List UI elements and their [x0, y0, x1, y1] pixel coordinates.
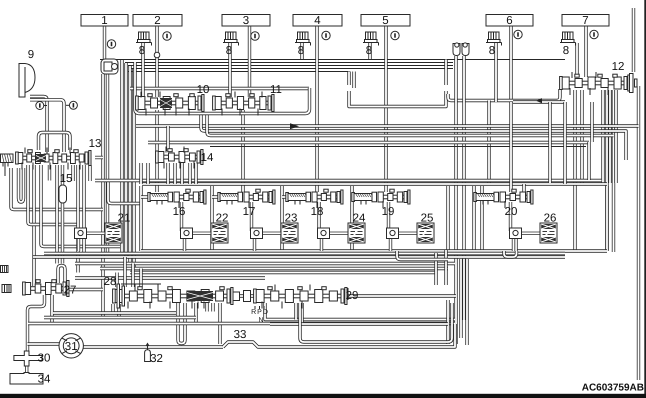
wire cell drop jog	[397, 251, 448, 260]
svg-text:3: 3	[243, 15, 249, 27]
svg-text:25: 25	[421, 213, 434, 225]
component 9	[19, 64, 35, 98]
accumulator 23	[251, 223, 299, 251]
wire bus y319	[265, 303, 455, 320]
orifice circle box2	[163, 32, 171, 40]
wire drop to 29 b	[444, 250, 447, 285]
svg-text:6: 6	[506, 15, 512, 27]
wire ball2 up	[444, 60, 447, 86]
solenoid valve 17	[218, 192, 243, 204]
svg-text:30: 30	[38, 353, 51, 365]
wire box2 drop	[155, 26, 158, 97]
wire valve14 feed	[166, 126, 169, 151]
svg-text:18: 18	[311, 206, 324, 218]
wire cup drop 2	[462, 56, 465, 320]
wire 29 tick	[347, 288, 349, 300]
svg-text:7: 7	[582, 15, 588, 27]
valve 14	[156, 147, 203, 169]
wire 28 left drop a	[111, 304, 114, 313]
wire box7 drop	[584, 26, 587, 77]
svg-text:4: 4	[314, 15, 321, 27]
wire valve housing 10-11	[135, 62, 310, 114]
svg-text:23: 23	[285, 213, 298, 225]
svg-text:8: 8	[489, 45, 495, 57]
wire bus y313	[53, 311, 176, 314]
svg-text:10: 10	[197, 84, 210, 96]
wire stub below 13 spring	[4, 163, 6, 176]
wire v13 to 15	[61, 165, 64, 185]
wire bus y278	[75, 276, 265, 279]
wire v41-L	[41, 165, 120, 247]
wire v565	[563, 102, 566, 184]
wire bus y184	[142, 182, 607, 185]
wire pump out left	[84, 345, 224, 348]
svg-text:N: N	[258, 317, 263, 324]
wire cell bottom bus	[141, 249, 607, 252]
svg-text:24: 24	[353, 213, 366, 225]
wire box3 drop	[248, 26, 251, 97]
wire stub circ1	[44, 105, 47, 107]
wire vr461	[459, 259, 462, 338]
wire jog under cell6	[504, 251, 517, 257]
wire pump in	[28, 342, 60, 345]
wire 29 left drop b	[300, 303, 303, 324]
svg-text:AC603759AB: AC603759AB	[582, 383, 644, 394]
svg-text:16: 16	[173, 206, 186, 218]
wire sol2 drop	[141, 43, 144, 97]
accumulator 21	[75, 223, 123, 251]
wire 17 left stub	[212, 195, 218, 198]
wire box1 drop lower	[106, 74, 109, 253]
accumulator 26	[510, 223, 558, 251]
box 7 (connector7)	[562, 15, 609, 28]
svg-text:34: 34	[38, 374, 51, 386]
wire v550	[548, 102, 551, 183]
wire sol3 drop	[228, 43, 231, 97]
accumulator 25	[387, 223, 435, 251]
wire 27 drop 2	[50, 295, 53, 324]
solenoid 8 under box 7	[560, 32, 576, 57]
svg-text:8: 8	[366, 45, 372, 57]
wire v28-L	[28, 165, 78, 225]
wire drop x134	[132, 69, 135, 269]
wire cup drop 1	[454, 56, 457, 344]
wire bus line y146	[210, 146, 586, 148]
wire descender x489	[487, 101, 490, 184]
svg-text:27: 27	[64, 285, 77, 297]
wire bus y180	[95, 179, 602, 182]
svg-text:1: 1	[101, 15, 107, 27]
svg-text:8: 8	[226, 45, 232, 57]
wire valve 20 to accumulator drop	[509, 202, 512, 231]
wire 16 left stub	[141, 195, 148, 198]
valve 12	[560, 72, 630, 95]
wire loop under 29	[300, 303, 452, 342]
wire strainer run	[223, 324, 455, 347]
wire drop x130	[128, 66, 131, 264]
solenoid 8 under box 4	[295, 32, 311, 57]
accumulator 22	[181, 223, 229, 251]
solenoid 8 under box 5	[363, 32, 379, 57]
flow arrow 2	[290, 123, 299, 129]
wire 28 rod	[121, 283, 161, 285]
wire bus y324b	[270, 322, 448, 325]
box 2 (connector2)	[133, 15, 182, 28]
wire bus y135	[207, 114, 614, 136]
wire vr467	[465, 259, 468, 345]
wire drop 28b	[218, 303, 221, 344]
wire loop under 28	[178, 303, 185, 344]
wire drops to valve 28	[117, 257, 141, 287]
wire stub 28d	[211, 303, 214, 312]
wire valve 19 to accumulator drop	[387, 202, 390, 231]
box 1 (connector1)	[81, 15, 128, 28]
wire bus y268	[100, 267, 448, 270]
check valve under box 1	[101, 59, 118, 74]
wire bus y253	[44, 252, 565, 255]
wire v589	[587, 142, 590, 180]
wire pipe from 9 left	[30, 97, 47, 153]
wire top bus band	[100, 60, 565, 72]
svg-text:32: 32	[150, 353, 163, 365]
bottom frame bar	[0, 394, 646, 398]
valve 13	[16, 148, 91, 170]
wire sol4 drop	[300, 43, 303, 59]
svg-text:5: 5	[382, 15, 388, 27]
wire v57	[55, 165, 58, 264]
accumulator 24	[318, 223, 366, 251]
solenoid 8 under box 3	[223, 32, 239, 57]
check circle left B	[69, 101, 77, 109]
wire pipe from 9 right	[30, 100, 64, 152]
wire 13 right stub	[95, 156, 103, 159]
wire v592	[590, 102, 593, 142]
wire stub 28c	[205, 303, 208, 312]
box 3 (connector3)	[222, 15, 270, 28]
wire valve20 feed from box6	[509, 102, 512, 192]
wire v34 to 27	[32, 165, 35, 286]
wire y102 right link	[513, 100, 565, 103]
relief bottle 32	[145, 344, 151, 362]
solenoid 8 under box 2	[136, 32, 152, 57]
wire drop x126	[124, 63, 127, 257]
svg-text:22: 22	[216, 213, 229, 225]
wire 26 drop	[514, 237, 517, 251]
wire stub circ2	[66, 104, 70, 106]
wire drop x354	[352, 72, 355, 89]
wire right upper vertical	[632, 8, 635, 72]
coupling between 28 and 29	[233, 291, 251, 302]
wire v49 below 13	[48, 165, 51, 181]
wire valve14 drops	[141, 163, 196, 184]
svg-text:14: 14	[201, 152, 214, 164]
wire drop 28a	[194, 303, 197, 324]
svg-text:29: 29	[346, 290, 359, 302]
wire 27-28 link	[69, 288, 103, 291]
wire valve12 drops	[575, 90, 616, 252]
valve 11	[213, 92, 274, 116]
wire bus y263	[75, 262, 455, 265]
wire box2 drop to valve16	[155, 110, 158, 192]
valve 29	[254, 285, 347, 309]
wire 29 right drop	[446, 300, 449, 344]
wire sol7 drop	[575, 43, 578, 77]
orifice circle box1	[107, 40, 115, 48]
right edge frame line	[644, 0, 646, 398]
orifice circle box6	[514, 30, 522, 38]
wire link to cell1	[108, 181, 141, 204]
wire box5 drop	[384, 26, 387, 192]
solenoid valve 18	[286, 192, 311, 204]
wire box6 drop	[509, 26, 512, 102]
wire sol6 drop	[494, 43, 497, 102]
solenoid valve 20	[474, 192, 499, 204]
wire box4 drop	[315, 26, 318, 192]
left edge connector stub	[1, 266, 9, 273]
wire 30 to 34	[25, 365, 28, 373]
wire ball link	[349, 91, 446, 107]
wire v11-L	[11, 168, 103, 210]
wire valve 18 to accumulator drop	[317, 202, 320, 231]
pump 31	[59, 334, 83, 358]
wire 29 right link	[344, 294, 456, 297]
flow arrow	[536, 98, 542, 103]
svg-text:19: 19	[382, 206, 395, 218]
wire v78	[76, 165, 79, 273]
check circle left A	[36, 102, 44, 110]
wire box1 drop left	[101, 74, 104, 318]
junction node under box 2	[154, 52, 160, 58]
accumulator 15	[59, 185, 67, 203]
svg-text:9: 9	[28, 49, 34, 61]
twin accumulator cups	[453, 43, 469, 56]
orifice circle box5	[391, 31, 399, 39]
wire bus y131	[201, 114, 626, 161]
wire bus y323	[28, 322, 455, 325]
wire sol5 drop	[368, 43, 371, 59]
fitting 30	[14, 351, 42, 366]
wire drop to 29 a	[434, 253, 437, 285]
box 5 (connector5)	[361, 15, 410, 28]
svg-text:12: 12	[612, 61, 625, 73]
wire loop under 13	[19, 168, 24, 202]
svg-text:RPD: RPD	[251, 309, 269, 316]
wire v90	[88, 165, 91, 181]
box 6 (connector6)	[486, 15, 533, 28]
svg-text:21: 21	[118, 213, 131, 225]
svg-text:15: 15	[60, 173, 73, 185]
wire bus y88	[130, 87, 309, 90]
svg-text:28: 28	[104, 276, 117, 288]
wire v84	[82, 165, 85, 253]
wire valve12 left feed	[448, 89, 560, 101]
orifice circle box4	[322, 31, 330, 39]
solenoid valve 16	[148, 192, 173, 204]
solenoid valve 19	[352, 192, 377, 204]
valve 10	[136, 92, 204, 116]
svg-text:13: 13	[89, 138, 102, 150]
wire 27 top loop	[58, 266, 65, 284]
orifice circle box7	[590, 30, 598, 38]
svg-text:31: 31	[65, 341, 78, 353]
valve 28 (manual valve)	[113, 285, 233, 309]
svg-text:33: 33	[234, 329, 247, 341]
svg-text:8: 8	[563, 45, 569, 57]
svg-text:8: 8	[298, 45, 304, 57]
svg-text:17: 17	[243, 206, 256, 218]
svg-text:20: 20	[505, 206, 518, 218]
wire v20 feed	[522, 184, 525, 192]
svg-text:2: 2	[154, 15, 160, 27]
svg-text:11: 11	[270, 84, 282, 96]
wire housing above 13	[39, 133, 71, 151]
wire valve 16 to accumulator drop	[180, 202, 183, 231]
wire right border vertical	[637, 86, 640, 380]
wire cell dividers	[141, 186, 607, 251]
box 4 (connector4)	[293, 15, 342, 28]
svg-text:8: 8	[139, 45, 145, 57]
wire 28-29 link	[230, 294, 256, 297]
wire bus y142	[148, 141, 589, 144]
wire 29 left drop a	[294, 303, 297, 320]
wire 27 to 30	[28, 295, 45, 351]
wire valve 17 to accumulator drop	[250, 202, 253, 231]
valve 27	[23, 280, 69, 297]
wire bus y126	[136, 124, 639, 127]
wire 28 left drop b	[117, 304, 120, 318]
wire v73	[71, 165, 74, 181]
wire box3 drop to valve17	[241, 110, 244, 192]
wire drop x122	[120, 60, 123, 253]
wire v15 down	[61, 203, 64, 264]
wire bus y272	[130, 271, 436, 274]
svg-text:26: 26	[544, 213, 557, 225]
wire ball1 up	[347, 72, 350, 86]
wire bus y257	[33, 255, 565, 258]
oil pan 34	[10, 373, 43, 385]
solenoid 8 under box 6	[486, 32, 502, 57]
orifice circle box3	[251, 32, 259, 40]
wire 18 left stub	[282, 195, 286, 198]
wire box1 drop upper	[103, 26, 106, 59]
wire bus y317	[44, 316, 196, 319]
